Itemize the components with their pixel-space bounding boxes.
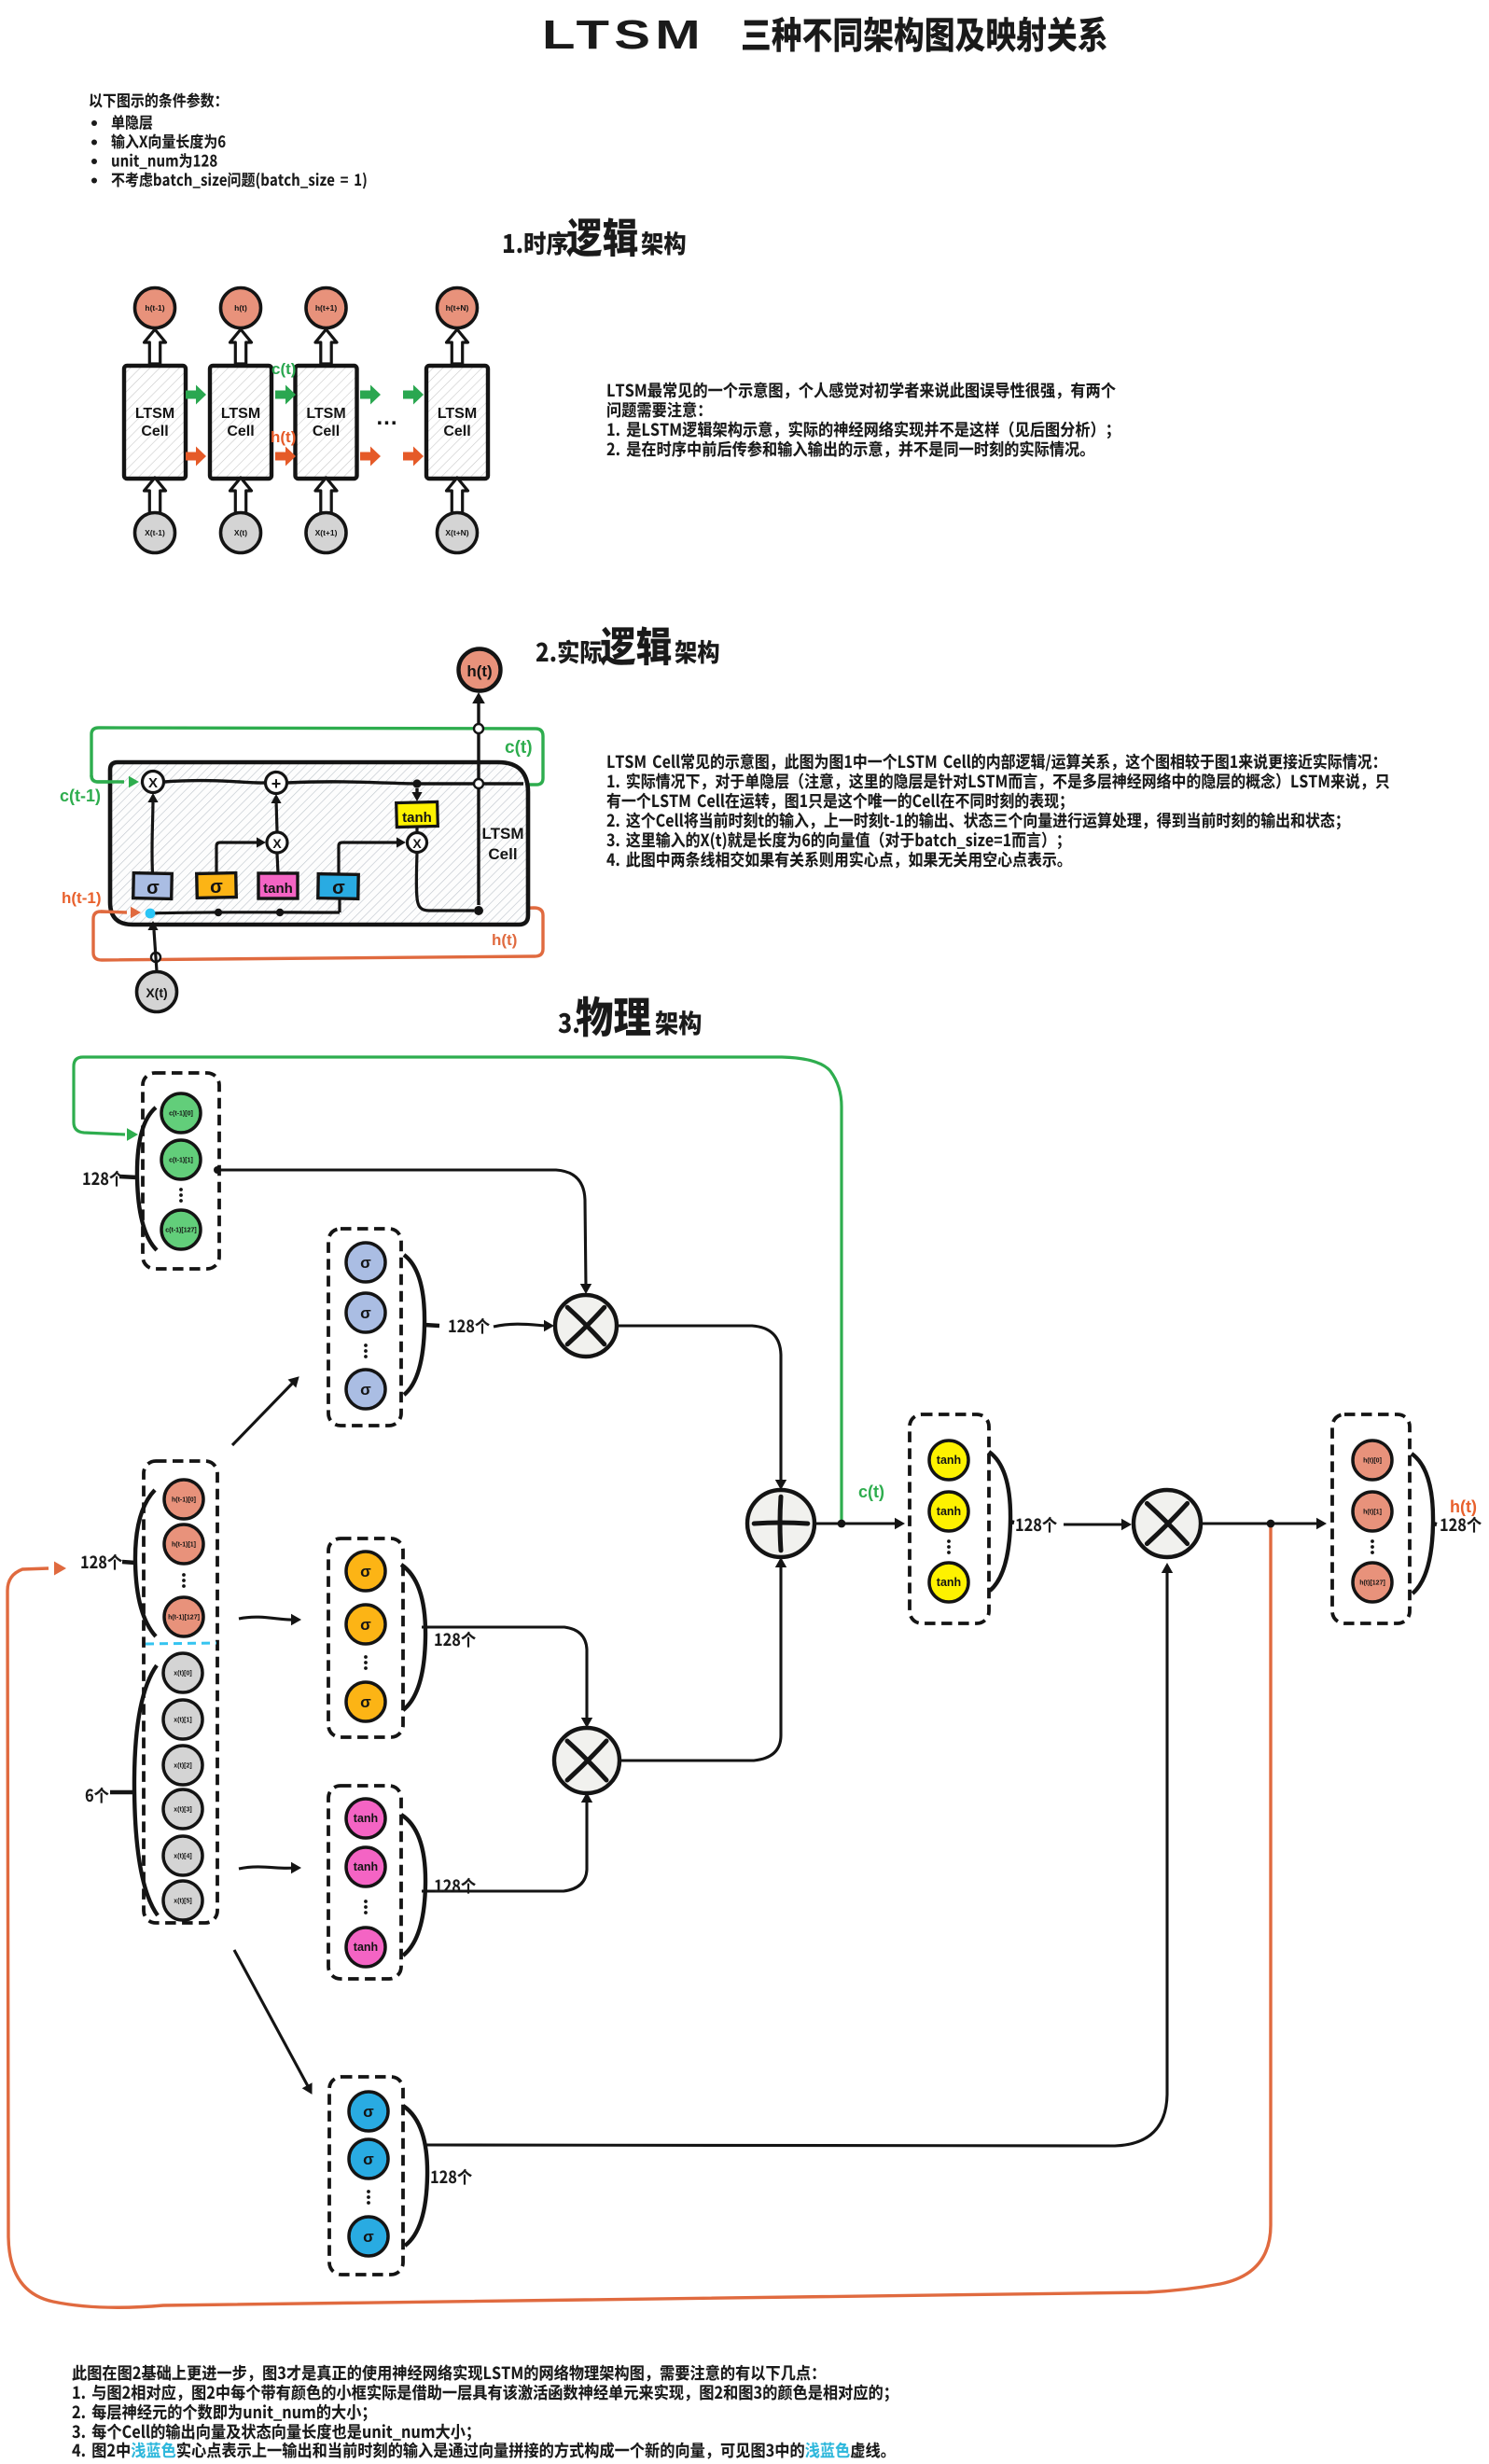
- sigma blue box: [318, 874, 358, 899]
- svg-text:LTSM: LTSM: [481, 825, 523, 842]
- up arrow from X circle 3: [315, 478, 337, 513]
- svg-text:tanh: tanh: [354, 1860, 378, 1873]
- up arrow from X circle 4: [447, 478, 468, 513]
- input gate sigma layer: [328, 1538, 403, 1737]
- svg-text:tanh: tanh: [354, 1941, 378, 1954]
- multiply node X3: [408, 833, 427, 853]
- big orange h(t) wire around bottom: [7, 1527, 1271, 2307]
- wire X2 to plus: [276, 800, 277, 831]
- svg-text:+: +: [271, 774, 282, 793]
- concat line bottom: [150, 912, 340, 913]
- sigma orange box: [197, 873, 237, 898]
- svg-text:σ: σ: [146, 878, 160, 898]
- svg-text:σ: σ: [360, 1616, 371, 1634]
- orange entry arrow over cell: [101, 912, 127, 912]
- svg-text:c(t-1)[1]: c(t-1)[1]: [169, 1158, 193, 1164]
- forget gate sigma layer: [328, 1229, 401, 1426]
- svg-text:X: X: [148, 775, 158, 791]
- multiply node X1: [143, 772, 164, 793]
- page title latin part: [542, 11, 705, 58]
- braces: [137, 1107, 157, 1250]
- tanh pink box: [258, 873, 298, 898]
- svg-text:tanh: tanh: [937, 1576, 961, 1589]
- wires: [217, 1170, 586, 1288]
- output gate sigma layer: [329, 2077, 403, 2275]
- green entry arrow over cell: [91, 775, 124, 782]
- arrow to candidate tanh: [239, 1867, 293, 1869]
- svg-text:h(t): h(t): [271, 428, 296, 446]
- svg-text:x(t)[0]: x(t)[0]: [174, 1671, 191, 1677]
- svg-text:σ: σ: [210, 877, 223, 898]
- svg-text:h(t-1)[0]: h(t-1)[0]: [172, 1497, 196, 1504]
- output circle h(t-1): [135, 288, 175, 328]
- output wire up to h(t): [477, 699, 480, 905]
- wire pink tanh to X2: [277, 854, 278, 873]
- LSTM cell 1: [124, 366, 186, 479]
- svg-text:tanh: tanh: [263, 881, 293, 897]
- svg-text:tanh: tanh: [937, 1454, 961, 1467]
- svg-text:h(t)[127]: h(t)[127]: [1359, 1580, 1385, 1587]
- output circle h(t+1): [306, 288, 346, 328]
- input circle X(t+1): [306, 513, 346, 553]
- svg-text:X(t+N): X(t+N): [445, 528, 468, 537]
- svg-text:σ: σ: [363, 2151, 374, 2168]
- svg-text:σ: σ: [363, 2228, 374, 2246]
- add node +: [266, 773, 287, 794]
- arrow down to tanh: [415, 788, 418, 795]
- wire lavender sigma to X1: [152, 798, 153, 873]
- up arrow to h circle 2: [230, 329, 252, 364]
- cyan concat dot: [146, 909, 156, 919]
- svg-text:h(t): h(t): [492, 931, 517, 949]
- bullet dots: [91, 120, 97, 126]
- up arrow from X circle 1: [145, 478, 166, 513]
- svg-text:x(t)[4]: x(t)[4]: [174, 1854, 191, 1860]
- input circle X(t-1): [135, 513, 175, 553]
- svg-text:h(t-1): h(t-1): [145, 303, 164, 313]
- wire tanh to X3: [415, 827, 418, 832]
- svg-text:h(t): h(t): [234, 303, 247, 313]
- big green c(t) wire across top: [74, 1057, 842, 1520]
- green c(t) feedback loop: [91, 728, 543, 785]
- svg-text:σ: σ: [360, 1254, 371, 1272]
- svg-text:c(t): c(t): [505, 738, 533, 758]
- input circle X(t+N): [438, 513, 478, 553]
- svg-text:...: ...: [376, 405, 397, 430]
- svg-text:x(t)[5]: x(t)[5]: [174, 1899, 191, 1905]
- svg-text:tanh: tanh: [937, 1505, 961, 1518]
- green c arrows between cells: [186, 385, 206, 405]
- diagonal arrow to output sigma: [234, 1950, 308, 2086]
- svg-text:h(t): h(t): [466, 662, 492, 680]
- svg-text:LTSM: LTSM: [542, 11, 705, 58]
- svg-text:h(t-1): h(t-1): [62, 889, 101, 907]
- svg-text:h(t): h(t): [1450, 1497, 1477, 1516]
- svg-text:σ: σ: [360, 1304, 371, 1322]
- tanh yellow box: [397, 801, 438, 827]
- svg-text:X: X: [412, 836, 422, 851]
- orange h(t) feedback loop: [93, 908, 543, 960]
- diagonal arrow to forget sigma: [232, 1382, 294, 1445]
- operator nodes: [555, 1295, 617, 1357]
- svg-text:h(t-1)[1]: h(t-1)[1]: [172, 1542, 196, 1549]
- svg-text:X(t+1): X(t+1): [315, 528, 338, 537]
- LSTM cell 2: [210, 366, 271, 479]
- output circle h(t+N): [438, 288, 478, 328]
- output circle h(t): [221, 288, 261, 328]
- svg-text:x(t)[1]: x(t)[1]: [174, 1718, 191, 1724]
- c(t-1) state vector group: [143, 1073, 219, 1269]
- svg-text:X: X: [272, 836, 282, 851]
- candidate tanh layer: [328, 1786, 401, 1979]
- up arrow from X circle 2: [230, 478, 252, 513]
- wire orange sigma to X2: [216, 842, 259, 873]
- state tanh layer: [910, 1414, 989, 1623]
- svg-text:X(t): X(t): [234, 528, 247, 537]
- svg-text:h(t+N): h(t+N): [446, 303, 469, 313]
- up arrow to h circle 1: [145, 329, 166, 364]
- svg-text:tanh: tanh: [402, 810, 432, 826]
- sigma lavender box: [133, 873, 173, 899]
- LSTM cell 3: [296, 366, 357, 479]
- input circle X(t): [221, 513, 261, 553]
- svg-text:LTSM: LTSM: [306, 406, 345, 422]
- up arrow to h circle 3: [315, 329, 337, 364]
- svg-text:σ: σ: [360, 1381, 371, 1399]
- svg-text:LTSM: LTSM: [438, 406, 477, 422]
- CJK text layer: [743, 16, 1106, 51]
- LSTM cell body (hatched): [110, 762, 528, 925]
- svg-text:c(t-1)[0]: c(t-1)[0]: [169, 1111, 193, 1118]
- svg-text:x(t)[2]: x(t)[2]: [174, 1763, 191, 1770]
- svg-text:LTSM: LTSM: [135, 406, 174, 422]
- svg-text:σ: σ: [363, 2103, 374, 2121]
- svg-text:Cell: Cell: [313, 424, 340, 439]
- svg-text:h(t)[1]: h(t)[1]: [1363, 1510, 1382, 1516]
- wire blue sigma to X3: [339, 842, 399, 874]
- svg-text:Cell: Cell: [488, 845, 517, 863]
- svg-text:c(t): c(t): [858, 1483, 884, 1501]
- h(t) output vector group: [1332, 1414, 1410, 1623]
- svg-text:Cell: Cell: [227, 424, 254, 439]
- svg-text:x(t)[3]: x(t)[3]: [174, 1807, 191, 1814]
- wire X(t) up to concat dot: [154, 930, 157, 971]
- svg-text:Cell: Cell: [443, 424, 470, 439]
- svg-text:σ: σ: [360, 1563, 371, 1580]
- orange h arrows between cells: [186, 447, 206, 466]
- svg-text:X(t-1): X(t-1): [145, 528, 165, 537]
- X(t) input circle: [137, 972, 177, 1012]
- wire X3 down to output junction: [416, 853, 474, 911]
- svg-text:h(t)[0]: h(t)[0]: [1363, 1458, 1382, 1465]
- cyan concat divider: [146, 1643, 216, 1644]
- svg-text:X(t): X(t): [146, 985, 167, 1000]
- svg-text:tanh: tanh: [354, 1812, 378, 1825]
- multiply node X2: [267, 832, 287, 853]
- arrow to input sigma: [239, 1617, 293, 1620]
- svg-text:σ: σ: [332, 878, 345, 898]
- open circle crossings: [474, 724, 483, 733]
- svg-text:c(t): c(t): [271, 360, 296, 378]
- junction dot on c line: [412, 779, 421, 787]
- svg-text:σ: σ: [360, 1693, 371, 1711]
- svg-text:c(t-1): c(t-1): [60, 787, 101, 805]
- svg-text:Cell: Cell: [141, 424, 168, 439]
- internal c line: [164, 781, 265, 784]
- svg-text:LTSM: LTSM: [221, 406, 260, 422]
- svg-text:h(t-1)[127]: h(t-1)[127]: [168, 1615, 200, 1622]
- LSTM cell 4: [426, 366, 488, 479]
- h(t) output circle: [459, 649, 501, 691]
- svg-text:h(t+1): h(t+1): [315, 303, 338, 313]
- up arrow to h circle 4: [447, 329, 468, 364]
- combined h(t-1)+x(t) input vector group: [144, 1461, 217, 1923]
- svg-text:c(t-1)[127]: c(t-1)[127]: [165, 1228, 196, 1234]
